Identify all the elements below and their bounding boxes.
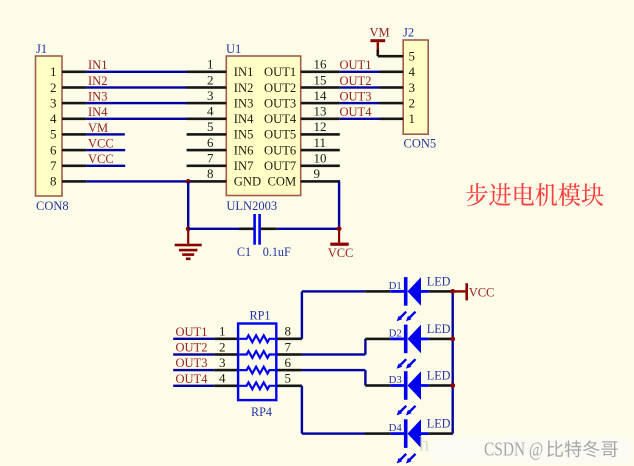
svg-text:U1: U1 [226, 42, 241, 56]
svg-text:2: 2 [207, 72, 214, 87]
wire net OUT1 (bottom) [173, 338, 214, 340]
U1 pin 7 stub [187, 165, 227, 168]
RP1 pin 7 stub [276, 353, 302, 356]
svg-text:OUT1: OUT1 [264, 65, 296, 79]
svg-text:COM: COM [267, 175, 296, 189]
wire net OUT3 (bottom) [173, 369, 214, 371]
U1 pin 16 stub [301, 71, 340, 74]
svg-text:OUT2: OUT2 [176, 341, 208, 355]
svg-text:J1: J1 [36, 42, 47, 56]
J1 pin 5 stub [62, 133, 86, 136]
svg-text:IN4: IN4 [88, 105, 108, 119]
svg-text:IN2: IN2 [234, 81, 254, 95]
svg-text:IN6: IN6 [234, 143, 254, 157]
svg-text:OUT4: OUT4 [264, 112, 297, 126]
svg-text:IN2: IN2 [88, 74, 107, 88]
svg-text:CSDN @: CSDN @ [484, 438, 543, 460]
J2 pin 4 stub [380, 71, 404, 74]
svg-text:4: 4 [50, 111, 57, 126]
svg-text:OUT4: OUT4 [176, 372, 209, 386]
RP1 pin 1 stub [214, 338, 238, 341]
power symbol VCC [328, 229, 354, 260]
U1 pin 10 stub [301, 165, 340, 168]
svg-text:OUT3: OUT3 [264, 96, 296, 110]
svg-text:D4: D4 [389, 422, 403, 434]
wire net IN4 [86, 118, 187, 120]
U1 pin 5 stub [187, 133, 227, 136]
connector J1 [36, 42, 69, 213]
resistor element 3 [239, 367, 275, 374]
wire RP pin5 to D4 [301, 386, 303, 434]
svg-text:OUT3: OUT3 [340, 90, 372, 104]
svg-text:15: 15 [314, 72, 327, 87]
wire RP pin6 to D3 [302, 369, 366, 371]
svg-text:4: 4 [207, 104, 214, 119]
resistor element 2 [239, 351, 275, 358]
J1 pin 6 stub [62, 149, 86, 152]
wire GND net vertical [187, 181, 189, 228]
svg-text:8: 8 [285, 324, 292, 339]
wire net OUT1 [340, 71, 380, 73]
IC U1 ULN2003 [226, 42, 301, 213]
svg-text:OUT2: OUT2 [340, 74, 372, 88]
wire net IN3 [86, 102, 187, 104]
U1 pin 1 stub [187, 71, 227, 74]
svg-text:LED: LED [427, 322, 451, 336]
J1 pin 3 stub [62, 102, 86, 105]
wire net OUT4 [340, 118, 380, 120]
RP1 pin 2 stub [214, 353, 238, 356]
svg-text:0.1uF: 0.1uF [263, 245, 291, 259]
wire net OUT3 [340, 102, 380, 104]
svg-text:J2: J2 [403, 26, 414, 40]
svg-text:14: 14 [314, 88, 328, 103]
wire U1 COM pin9 down [338, 180, 341, 183]
svg-text:3: 3 [219, 355, 226, 370]
svg-text:IN1: IN1 [234, 65, 254, 79]
svg-text:IN7: IN7 [234, 159, 254, 173]
svg-text:D1: D1 [389, 280, 402, 292]
svg-text:2: 2 [50, 80, 57, 95]
U1 pin 15 stub [301, 86, 340, 89]
J1 pin 7 stub [62, 165, 86, 168]
LED D4 [365, 417, 453, 464]
svg-text:5: 5 [409, 49, 416, 64]
svg-text:8: 8 [50, 174, 57, 189]
resistor element 1 [239, 335, 275, 342]
svg-text:1: 1 [409, 111, 416, 126]
svg-text:D3: D3 [389, 374, 402, 386]
svg-text:3: 3 [409, 80, 416, 95]
svg-text:8: 8 [207, 166, 214, 181]
svg-text:11: 11 [314, 135, 327, 150]
J1 pin 1 stub [62, 71, 86, 74]
svg-text:IN3: IN3 [88, 90, 107, 104]
svg-text:OUT1: OUT1 [176, 325, 208, 339]
title text 步进电机模块 [466, 183, 603, 206]
svg-text:7: 7 [207, 151, 214, 166]
svg-text:CON8: CON8 [36, 199, 69, 213]
junction D2 rail [450, 337, 455, 342]
J1 pin 8 stub [62, 180, 86, 183]
svg-text:5: 5 [50, 127, 57, 142]
J1 pin 2 stub [62, 86, 86, 89]
svg-text:OUT2: OUT2 [264, 81, 296, 95]
svg-text:GND: GND [234, 175, 261, 189]
svg-text:LED: LED [427, 274, 451, 288]
svg-text:RP1: RP1 [250, 309, 271, 323]
svg-text:IN4: IN4 [234, 112, 254, 126]
svg-text:VCC: VCC [88, 137, 114, 151]
J2 pin 2 stub [380, 102, 404, 105]
J2 pin 5 stub/wire from VM [378, 55, 403, 58]
LED D3 [365, 369, 453, 416]
junction at VCC node [337, 226, 342, 231]
U1 pin 3 stub [187, 102, 227, 105]
wire LED cathode rail [452, 291, 454, 433]
wire net VM [86, 133, 125, 135]
junction on GND net [186, 179, 191, 184]
svg-text:IN3: IN3 [234, 96, 254, 110]
svg-text:3: 3 [50, 95, 57, 110]
wire C1 to VCC node [277, 228, 339, 230]
svg-text:6: 6 [207, 135, 214, 150]
U1 pin 11 stub [301, 149, 340, 152]
svg-text:IN5: IN5 [234, 128, 254, 142]
wire net IN1 [86, 71, 187, 73]
svg-text:12: 12 [314, 119, 327, 134]
U1 pin 8 stub [188, 180, 226, 183]
svg-text:CON5: CON5 [404, 137, 437, 151]
svg-text:9: 9 [314, 166, 321, 181]
svg-text:VM: VM [88, 121, 108, 135]
resistor element 4 [239, 382, 275, 389]
svg-text:h: h [419, 434, 429, 456]
J2 pin 1 stub [380, 118, 404, 121]
svg-text:VM: VM [370, 26, 390, 40]
svg-text:RP4: RP4 [251, 405, 272, 419]
svg-text:3: 3 [207, 88, 214, 103]
svg-text:OUT1: OUT1 [340, 58, 372, 72]
svg-text:1: 1 [50, 64, 57, 79]
LED D2 [365, 322, 453, 369]
junction at ground node [186, 226, 191, 231]
svg-text:OUT6: OUT6 [264, 143, 296, 157]
U1 pin 9 stub [301, 180, 340, 183]
power symbol VCC (LED rail) [453, 283, 495, 300]
svg-text:1: 1 [219, 324, 226, 339]
U1 pin 13 stub [301, 118, 340, 121]
power symbol VM [370, 26, 390, 57]
connector J2 [403, 26, 436, 151]
wire net IN2 [86, 86, 187, 88]
J1 pin 4 stub [62, 118, 86, 121]
junction D3 rail [450, 383, 455, 388]
LED D1 [365, 274, 453, 321]
junction D1 rail [450, 289, 455, 294]
svg-text:2: 2 [409, 95, 416, 110]
svg-text:6: 6 [50, 142, 57, 157]
svg-text:OUT4: OUT4 [340, 105, 373, 119]
svg-text:5: 5 [285, 371, 292, 386]
U1 pin 6 stub [187, 149, 227, 152]
svg-text:5: 5 [207, 119, 214, 134]
svg-text:OUT7: OUT7 [264, 159, 296, 173]
capacitor C1 0.1uF [237, 214, 291, 259]
svg-text:ULN2003: ULN2003 [226, 199, 277, 213]
svg-text:2: 2 [219, 339, 226, 354]
svg-text:4: 4 [409, 64, 416, 79]
wire RP pin8 to D1 [301, 291, 303, 338]
wire net OUT4 (bottom) [173, 385, 214, 387]
svg-text:LED: LED [427, 417, 451, 431]
wire net OUT2 [340, 86, 380, 88]
svg-text:16: 16 [314, 57, 328, 72]
U1 pin 12 stub [301, 133, 340, 136]
svg-text:1: 1 [207, 57, 214, 72]
svg-text:13: 13 [314, 104, 327, 119]
wire net VCC [86, 165, 125, 167]
svg-text:VCC: VCC [469, 285, 495, 299]
RP1 pin 6 stub [276, 369, 302, 372]
svg-text:LED: LED [427, 369, 451, 383]
RP1 pin 3 stub [214, 369, 238, 372]
svg-text:OUT5: OUT5 [264, 128, 296, 142]
svg-text:VCC: VCC [328, 246, 354, 260]
RP1 pin 5 stub [276, 385, 302, 388]
RP1 pin 4 stub [214, 385, 238, 388]
U1 pin 2 stub [187, 86, 227, 89]
svg-text:4: 4 [219, 371, 226, 386]
RP1 pin 8 stub [276, 338, 302, 341]
svg-text:6: 6 [285, 355, 292, 370]
svg-text:D2: D2 [389, 328, 402, 340]
svg-text:OUT3: OUT3 [176, 356, 208, 370]
wire RP pin7 to D2 [302, 353, 366, 355]
J2 pin 3 stub [380, 86, 404, 89]
ground symbol [175, 229, 202, 260]
svg-text:C1: C1 [237, 245, 251, 259]
svg-text:VCC: VCC [88, 152, 114, 166]
svg-text:IN1: IN1 [88, 58, 107, 72]
wire net VCC [86, 149, 125, 151]
resistor pack RP1/RP4 [238, 309, 276, 420]
svg-text:7: 7 [50, 158, 57, 173]
wire net OUT2 (bottom) [173, 353, 214, 355]
U1 pin 4 stub [187, 118, 227, 121]
U1 pin 14 stub [301, 102, 340, 105]
wire ground node to C1 [188, 228, 239, 230]
wire J1 pin8 to U1 GND [86, 180, 188, 182]
svg-text:10: 10 [314, 151, 327, 166]
svg-text:7: 7 [285, 339, 292, 354]
